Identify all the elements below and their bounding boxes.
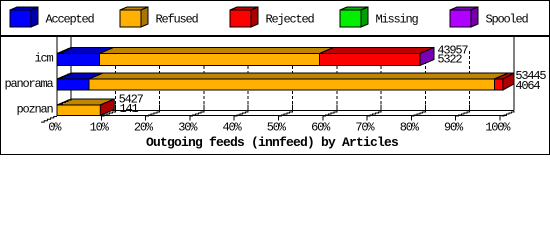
svg-text:141: 141 xyxy=(120,102,139,116)
legend cube Missing xyxy=(340,7,368,27)
x-axis front ticks xyxy=(101,116,500,121)
svg-text:poznan: poznan xyxy=(16,103,53,117)
svg-text:Refused: Refused xyxy=(156,13,199,27)
bar icm xyxy=(57,47,434,65)
svg-text:icm: icm xyxy=(34,52,53,66)
legend cube Refused xyxy=(120,7,148,27)
legend cube Rejected xyxy=(230,7,258,27)
dashed gridlines xyxy=(115,51,469,111)
svg-text:Spooled: Spooled xyxy=(486,13,529,27)
svg-text:Accepted: Accepted xyxy=(46,13,95,27)
image border xyxy=(1,1,550,155)
bar panorama xyxy=(57,73,514,90)
svg-text:100%: 100% xyxy=(485,121,511,135)
svg-text:80%: 80% xyxy=(400,121,420,135)
right frame line (100% back) xyxy=(513,36,515,111)
x-axis tick diagonals xyxy=(101,111,469,116)
svg-text:Missing: Missing xyxy=(376,13,419,27)
legend separator line xyxy=(0,35,550,37)
svg-text:panorama: panorama xyxy=(4,77,53,91)
y-axis front line xyxy=(56,36,58,116)
svg-text:4064: 4064 xyxy=(515,79,540,93)
legend cube Spooled xyxy=(450,7,478,27)
legend cube Accepted xyxy=(10,7,38,27)
y-axis back line xyxy=(70,36,72,111)
svg-text:5322: 5322 xyxy=(437,53,462,67)
svg-text:Rejected: Rejected xyxy=(266,13,315,27)
svg-text:10%: 10% xyxy=(90,121,110,135)
x-axis right diagonal xyxy=(502,111,515,116)
svg-text:0%: 0% xyxy=(48,121,62,135)
svg-text:60%: 60% xyxy=(311,121,331,135)
x-axis front line xyxy=(57,115,507,117)
svg-text:20%: 20% xyxy=(134,121,154,135)
svg-text:90%: 90% xyxy=(444,121,464,135)
svg-text:70%: 70% xyxy=(355,121,375,135)
svg-text:40%: 40% xyxy=(222,121,242,135)
svg-text:30%: 30% xyxy=(178,121,198,135)
bar poznan xyxy=(57,99,114,116)
x-axis back ticks xyxy=(115,105,469,111)
svg-text:50%: 50% xyxy=(267,121,287,135)
x-axis back line xyxy=(71,110,514,112)
x-axis origin diagonal xyxy=(41,117,57,123)
svg-text:Outgoing feeds (innfeed) by Ar: Outgoing feeds (innfeed) by Articles xyxy=(146,135,399,150)
